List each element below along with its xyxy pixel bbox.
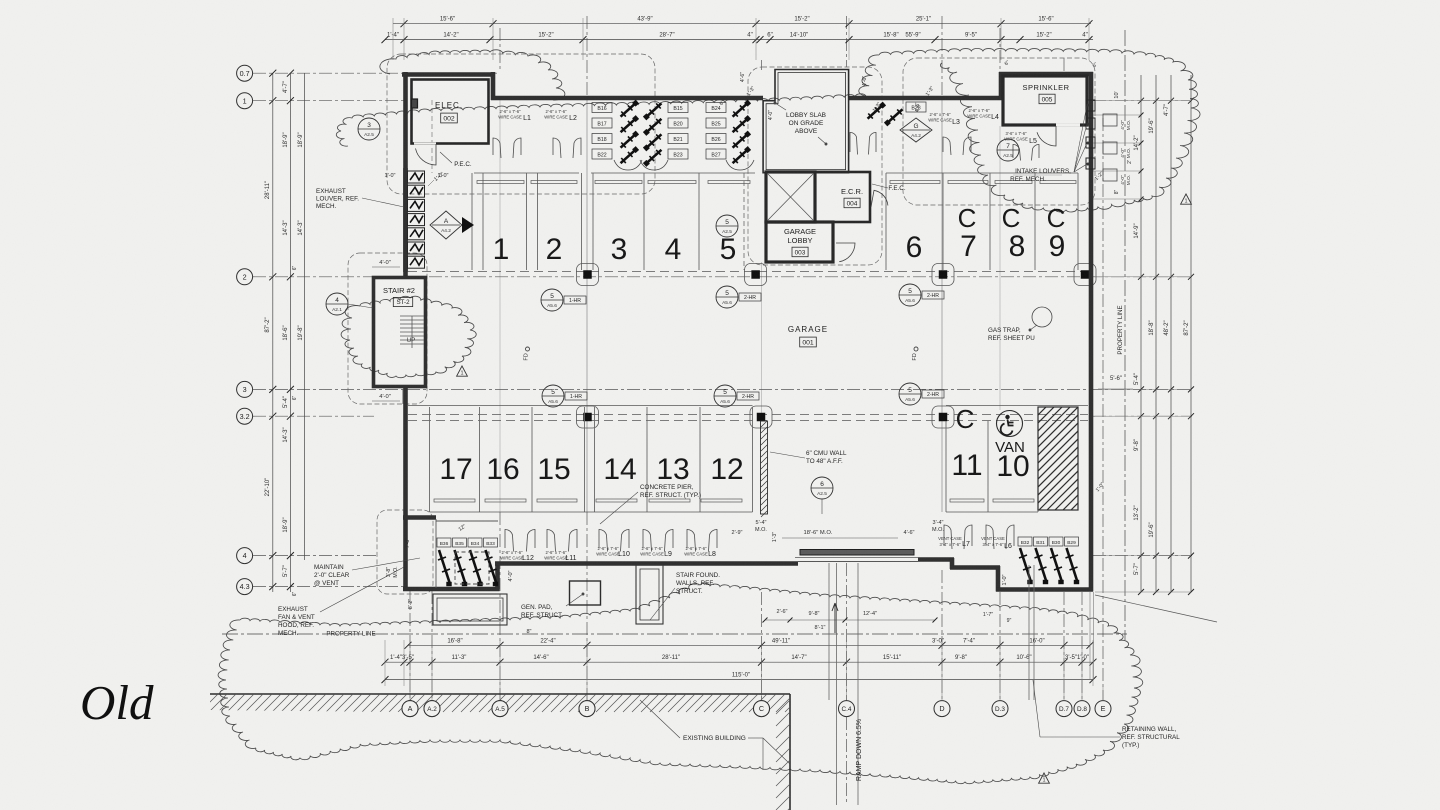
right dimension col 1191 <box>1190 75 1192 592</box>
wall bottom-left bike room top stub <box>403 515 436 520</box>
bottom dimension row 3 total <box>385 679 1093 681</box>
grid bubble 0.7 <box>237 65 253 81</box>
stair cloud triangle marker <box>457 366 468 376</box>
bottom stalls dashed aisle pair <box>408 414 1088 416</box>
wheelchair accessible symbol <box>997 411 1023 437</box>
wall stub top-left at louvers <box>403 168 408 272</box>
bottom stall dividers <box>429 407 431 512</box>
top dim extension lines <box>392 18 394 60</box>
drive aisle dashed lines at grid 2 <box>408 271 1088 273</box>
dashed scope rect lobby zone <box>748 67 882 265</box>
ramp walls below door <box>828 563 830 700</box>
grid col D.8 <box>1081 592 1083 700</box>
bottom wire case arcs row <box>505 529 514 551</box>
bottom-left bike room inner lines <box>435 519 437 588</box>
left dimension col outer <box>272 73 274 592</box>
grid bubble C <box>754 701 770 717</box>
garage lobby walls <box>766 222 833 262</box>
tag 5/A2.5 top <box>716 215 738 237</box>
dashed scope rect ELEC zone <box>387 54 655 194</box>
fire tag 1-HR lower left <box>542 385 564 407</box>
tag 7/A2.5 <box>997 139 1019 161</box>
wall top ELEC segment <box>402 72 493 77</box>
wall bottom right segment <box>996 587 1093 592</box>
pier at D grid3.2 <box>932 406 954 428</box>
garage lobby door arc <box>836 243 855 262</box>
revision cloud top riser <box>859 55 879 96</box>
intake louver leader fan <box>1074 105 1087 172</box>
stair foundation rect right <box>636 565 663 624</box>
left dimension col inner <box>304 73 306 560</box>
grid line 4.3 <box>253 586 404 588</box>
top stalls rear line <box>474 172 579 174</box>
property line horizontal bottom <box>222 633 1127 635</box>
elevator shaft walls <box>766 172 815 222</box>
bottom cloud triangle marker <box>1039 773 1050 783</box>
grid col C above/below <box>761 60 763 70</box>
stair #2 room walls <box>374 278 426 387</box>
grid col A.2 <box>431 100 433 173</box>
revision cloud bottom left lobe <box>218 620 256 749</box>
grid bubble 1 <box>237 93 253 109</box>
wall sprinkler top <box>999 72 1093 77</box>
grid bubble A.5 <box>492 701 508 717</box>
ELEC door opening and swing <box>414 142 436 144</box>
bottom dimension row 2 <box>385 661 1093 663</box>
lobby double door arcs <box>850 132 858 154</box>
grid col A below <box>409 591 411 700</box>
grid bubble 2 <box>237 269 253 285</box>
tag 6/A2.5 <box>811 477 833 499</box>
sprinkler room walls <box>1003 76 1087 125</box>
intake louver boxes right wall <box>1086 100 1095 111</box>
gen pad square <box>570 581 601 605</box>
pier at B grid2 <box>577 264 599 286</box>
revision cloud top-right balloon <box>879 48 1200 211</box>
wall left perimeter lower <box>403 385 408 589</box>
fire tag 2-HR upper right <box>899 284 921 306</box>
construction line col B <box>586 97 588 512</box>
grid col D above/below <box>941 16 943 97</box>
bike rack scallop bottoms <box>614 160 642 170</box>
diamond tag A/A4.2 <box>430 211 462 239</box>
wall right perimeter <box>1089 72 1094 592</box>
retaining wall lines <box>1028 565 1030 700</box>
grid col E <box>1102 118 1104 700</box>
stair treads <box>400 315 424 317</box>
diagonal site line <box>1095 595 1217 622</box>
pier at wall grid2 <box>1074 264 1096 286</box>
left dimension col mid <box>289 73 291 592</box>
grid bubble A <box>402 701 418 717</box>
grid line 4 <box>253 555 378 557</box>
bike rack cluster B33-B36 <box>437 538 451 547</box>
revision cloud bottom top edge <box>240 583 1067 626</box>
bike rack cluster B29-B32 <box>1018 537 1032 546</box>
exhaust louver boxes <box>408 171 425 183</box>
revision cloud right triangle marker <box>1181 194 1192 204</box>
grid bubble D.3 <box>992 701 1008 717</box>
grid bubbles bottom redraw over hatch <box>402 701 418 717</box>
grid bubble C.4 <box>839 701 855 717</box>
wall sprinkler step up <box>999 72 1004 100</box>
wall bottom toward bike room <box>950 565 1000 570</box>
wall step down right of door <box>950 558 955 569</box>
grid col B above/below <box>586 16 588 97</box>
grid bubble 4 <box>237 548 253 564</box>
existing building outline <box>210 693 790 695</box>
CMU wall hatched strip <box>761 421 768 514</box>
right dimension col 1171 <box>1170 75 1172 592</box>
lobby slab on grade rect <box>763 70 849 173</box>
wire case L2 door arcs <box>553 138 561 158</box>
ECR room walls <box>815 172 870 222</box>
grid col A.5 above <box>499 28 501 72</box>
grid bubble D.7 <box>1056 701 1072 717</box>
floor drain PD left <box>526 347 530 351</box>
pier at D grid2 <box>932 264 954 286</box>
wall top main right segment <box>848 96 1003 101</box>
grid col A.5 below <box>499 512 501 700</box>
tag 4/A2.1 stair <box>326 293 348 315</box>
revision cloud above ELEC <box>380 50 565 100</box>
right dim cross ticks <box>1138 98 1144 104</box>
tag 3/A2.5 top left <box>358 118 380 140</box>
grid col C.4 <box>846 16 848 67</box>
top dimension row 2 <box>385 39 1093 41</box>
dashed scope rect sprinkler zone <box>903 58 1095 205</box>
wall step at ELEC right <box>491 72 496 100</box>
diamond tag G/A4.2 <box>900 118 932 142</box>
revision cloud bottom right lobe <box>1067 612 1143 765</box>
grid bubble D <box>934 701 950 717</box>
grid bubble D.8 <box>1074 701 1090 717</box>
wire case L1 door arcs <box>493 138 501 158</box>
right dimension col 1156 <box>1155 75 1157 592</box>
stair door bottom <box>402 389 404 404</box>
grid bubble 3.2 <box>237 408 253 424</box>
elevator X <box>768 174 813 220</box>
bottom dimension row 1 <box>408 644 1090 646</box>
grid bubble B <box>579 701 595 717</box>
bike rack cluster B15-B23 <box>592 103 612 113</box>
wall bottom right of door <box>918 557 954 562</box>
fire tag 2-HR lower mid <box>714 385 736 407</box>
revision cloud top chain <box>336 94 866 146</box>
ECR door arc <box>871 190 888 207</box>
wall top main left segment <box>491 96 763 101</box>
bottom stall stripe bars <box>434 499 475 502</box>
construction line col C <box>761 262 763 420</box>
ELEC panel box <box>412 99 418 108</box>
garage door leaf <box>800 550 914 556</box>
pier at B grid3.2 <box>577 406 599 428</box>
grid bubble A.2 <box>424 701 440 717</box>
van accessible aisle hatch <box>1038 407 1078 510</box>
grid line 1 <box>253 100 405 102</box>
fire tag 2-HR upper mid <box>716 286 738 308</box>
sprinkler door opening <box>1056 123 1080 126</box>
wall bottom mid segment <box>495 561 798 566</box>
louver MO boxes outside wall <box>1103 114 1117 126</box>
ELEC room walls <box>412 80 489 144</box>
grid line 2 <box>253 276 1192 278</box>
top stall stripe bars <box>477 181 524 184</box>
grid col D.7 <box>1063 58 1065 72</box>
bottom stalls aisle line <box>408 405 753 407</box>
wall bottom-left bike room right wall <box>495 564 500 589</box>
grid line 3.2 <box>253 415 374 417</box>
wall bottom left segment <box>403 587 500 592</box>
property line vertical right <box>1124 30 1126 640</box>
grid line 3 <box>253 388 1192 390</box>
right dimension col 1141 <box>1140 75 1142 592</box>
dashed scope rect stair zone <box>348 253 427 404</box>
paper noise overlay <box>0 0 1 1</box>
grid bubble 4.3 <box>237 579 253 595</box>
existing building hatch top band <box>200 692 886 712</box>
wall bottom-right bike room left wall <box>996 566 1001 592</box>
sprinkler door arc <box>1037 126 1056 146</box>
grid bubble E <box>1095 701 1111 717</box>
stair foundation rect left <box>433 594 507 625</box>
bottom stall bottom line <box>430 511 753 513</box>
existing building hatch right band <box>776 700 790 714</box>
exhaust fan dashed box <box>455 552 489 584</box>
ramp arrow <box>832 603 838 633</box>
pier at C grid3.2 <box>750 406 772 428</box>
garage door opening sill <box>798 561 918 563</box>
top stall dividers <box>471 173 473 270</box>
pier at lobby grid2 <box>745 264 767 286</box>
construction line col A.5 <box>499 97 501 512</box>
wall left perimeter upper <box>403 72 408 279</box>
construction line col D.3 <box>999 126 1001 410</box>
bottom right extension verticals <box>1089 592 1091 680</box>
floor drain PD right <box>914 347 918 351</box>
top dimension row 1 <box>393 23 1091 25</box>
grid bubble 3 <box>237 381 253 397</box>
fire tag 1-HR upper left <box>541 289 563 311</box>
grid col D.3 <box>999 28 1001 97</box>
revision cloud bottom bottom edge <box>256 740 1077 784</box>
construction line col D <box>941 100 943 512</box>
revision cloud around stair <box>341 296 476 377</box>
dashed scope rect exhaust fan zone <box>377 510 433 594</box>
bottom right arcs L7 L6 <box>944 525 952 549</box>
bike rack B28 <box>906 102 926 112</box>
bike rack cluster B24-B27 <box>706 103 726 113</box>
bottom dim extension verticals <box>384 640 386 686</box>
fire tag 2-HR lower right <box>899 383 921 405</box>
grid line 0.7 <box>253 72 497 74</box>
right louver dim rows <box>1093 114 1141 116</box>
